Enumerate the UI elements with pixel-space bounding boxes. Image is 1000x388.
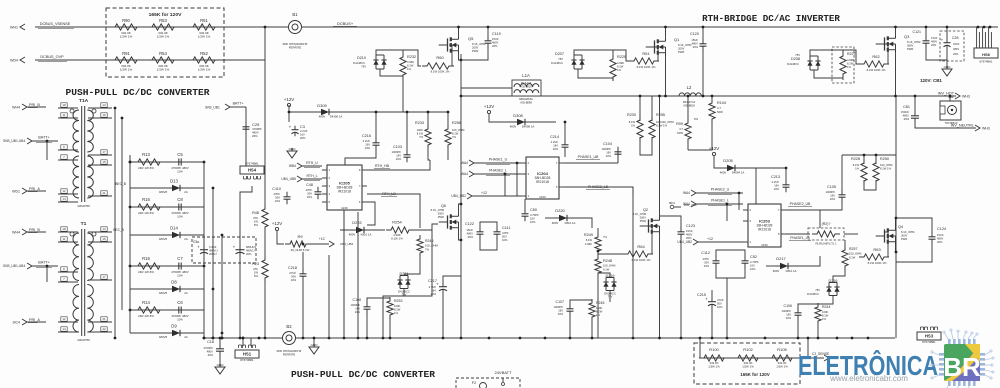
junction Q2 source bus xyxy=(658,337,661,340)
pin 22 transformer stub right xyxy=(88,327,112,332)
capacitor C6 xyxy=(171,300,188,321)
wire C122 col xyxy=(480,222,497,228)
svg-text:INV_NEUTRL: INV_NEUTRL xyxy=(951,124,974,128)
wire secondary rail xC xyxy=(129,155,131,333)
wire RTH_HB xyxy=(367,160,430,170)
junction C106 bus xyxy=(797,337,800,340)
junction ladder rail 222,333 xyxy=(221,332,224,335)
wire D205 row xyxy=(714,156,748,168)
wire R228 bot xyxy=(864,180,876,190)
svg-text:21: 21 xyxy=(102,317,106,321)
svg-text:+12: +12 xyxy=(707,237,713,241)
op-amp U IC205 xyxy=(322,165,367,210)
svg-text:8.1W: 8.1W xyxy=(407,63,414,67)
transistor Q5 xyxy=(439,35,486,55)
dual diode D210 xyxy=(353,55,386,69)
capacitor C215 xyxy=(697,293,724,309)
wire D221 return to bus xyxy=(383,296,404,338)
dual diode D208 xyxy=(787,53,820,70)
junction C28 bus xyxy=(946,26,949,29)
svg-text:PUSH-PULL DC/DC CONVERTER: PUSH-PULL DC/DC CONVERTER xyxy=(66,87,210,98)
svg-text:GND: GND xyxy=(539,195,545,199)
wire C28 top xyxy=(946,27,948,39)
junction R104 top xyxy=(711,95,714,98)
wire DCBUS_VSENSE row xyxy=(35,26,265,28)
svg-text:R99: R99 xyxy=(676,122,683,126)
svg-text:8.1W: 8.1W xyxy=(596,309,603,313)
node RTH_HB label xyxy=(374,164,390,168)
capacitor C5 xyxy=(171,152,188,173)
svg-text:D4306 1A: D4306 1A xyxy=(330,115,343,119)
wire D210 bottom xyxy=(380,69,403,79)
resistor R250 xyxy=(873,157,893,185)
svg-text:RTH_HB: RTH_HB xyxy=(375,164,390,168)
capacitor C119 xyxy=(485,32,501,48)
svg-text:C8: C8 xyxy=(177,197,183,202)
svg-text:47PF: 47PF xyxy=(502,231,509,235)
resistor R9 xyxy=(285,234,311,252)
wire C18 top xyxy=(219,338,221,345)
diode D220 xyxy=(552,208,576,225)
junction ladder left R14 xyxy=(129,309,132,312)
capacitor C111 xyxy=(494,226,511,242)
svg-text:R23: R23 xyxy=(252,262,259,266)
diode D14 xyxy=(159,226,188,242)
wire C25 column xyxy=(245,107,247,166)
junction C119 bus xyxy=(487,26,490,29)
node BF3 net stub xyxy=(669,201,697,209)
node PHASE2_L entry xyxy=(461,169,521,177)
wire D219 top xyxy=(598,273,610,278)
pin 13 transformer stub right xyxy=(88,103,112,108)
svg-text:C105: C105 xyxy=(827,185,836,189)
svg-text:480V: 480V xyxy=(692,41,699,45)
svg-text:SKB_UB1: SKB_UB1 xyxy=(205,106,220,110)
junction ladder rail 222,235 xyxy=(221,234,224,237)
svg-text:PRI_A: PRI_A xyxy=(29,318,40,322)
svg-text:SKB_UB1,UB4: SKB_UB1,UB4 xyxy=(3,139,25,143)
power +12V (C3 node) xyxy=(284,97,295,107)
resistor R233 xyxy=(415,121,431,149)
resistor R254 xyxy=(386,220,414,241)
svg-text:15UF: 15UF xyxy=(937,233,944,237)
svg-text:PRI_A: PRI_A xyxy=(29,187,40,191)
svg-text:PWR: PWR xyxy=(907,47,913,51)
svg-text:4.70PF: 4.70PF xyxy=(530,213,539,217)
junction phase2u xyxy=(738,192,741,195)
wire Q5 drain to bus xyxy=(458,27,460,35)
svg-text:R54: R54 xyxy=(159,51,167,56)
pin 17 transformer stub right xyxy=(88,150,112,155)
ground below C3 xyxy=(287,147,297,158)
svg-text:480V: 480V xyxy=(349,233,356,237)
svg-text:1%: 1% xyxy=(855,166,860,170)
svg-text:15UF: 15UF xyxy=(691,38,698,42)
svg-text:WH1: WH1 xyxy=(10,25,18,29)
wire C120 bottom xyxy=(702,50,704,96)
svg-text:1%: 1% xyxy=(822,317,827,321)
svg-text:47PF: 47PF xyxy=(703,257,710,261)
capacitor C81 xyxy=(901,105,921,123)
junction bus x520 xyxy=(519,337,522,340)
svg-text:K810 1A: K810 1A xyxy=(786,269,797,273)
svg-text:12: 12 xyxy=(62,317,66,321)
wire R228 top xyxy=(863,155,865,164)
svg-text:3IC4: 3IC4 xyxy=(13,320,20,324)
svg-text:D205: D205 xyxy=(723,158,733,163)
node BATT+ entry (C25 column) xyxy=(205,102,246,111)
svg-text:R245: R245 xyxy=(596,301,604,305)
svg-text:8.1W: 8.1W xyxy=(822,313,829,317)
resistor R227 (dashed) xyxy=(832,47,855,83)
wire feedback to bus xyxy=(699,338,701,358)
wire R233 top xyxy=(427,112,429,129)
svg-text:3.3UF: 3.3UF xyxy=(209,245,217,249)
svg-text:D210: D210 xyxy=(357,56,366,60)
wire R104 bot xyxy=(688,119,712,150)
resistor R256 xyxy=(445,121,465,149)
resistor R99 xyxy=(676,117,698,143)
wire B2 gnd link xyxy=(296,338,314,344)
svg-text:D309: D309 xyxy=(317,103,327,108)
diode D217 xyxy=(773,256,797,273)
wire D217 in xyxy=(766,265,776,267)
svg-text:IR21018: IR21018 xyxy=(758,228,771,232)
transistor Q2 xyxy=(633,208,660,236)
wire +12V down to C3 xyxy=(288,105,290,122)
svg-text:DCBUS_VSENSE: DCBUS_VSENSE xyxy=(40,22,71,26)
junction R228 feed xyxy=(863,154,866,157)
svg-text:480V: 480V xyxy=(467,231,474,235)
svg-text:480V/J: 480V/J xyxy=(209,248,218,252)
diode D221 (gate clamp) xyxy=(397,272,410,297)
wire secondary rail xA xyxy=(114,108,116,338)
svg-text:8.1K_OHM: 8.1K_OHM xyxy=(907,40,921,44)
inductor L2 xyxy=(679,85,701,107)
node DCBUS_OVP entry WD4 xyxy=(10,55,67,63)
node PHASE1_L entry xyxy=(683,199,743,207)
title RTH-BRIDGE DC/AC INVERTER xyxy=(702,13,840,24)
pin 21 transformer stub right xyxy=(88,191,112,196)
wire C121 bot xyxy=(926,47,947,60)
junction phase1u xyxy=(516,162,519,165)
svg-text:+1C: +1C xyxy=(319,237,326,241)
wire HS4 pins to C9 rail xyxy=(240,186,252,338)
capacitor C50 xyxy=(522,208,540,224)
junction Q1 drain bus xyxy=(664,26,667,29)
svg-text:D208: D208 xyxy=(791,57,800,61)
capacitor C104 xyxy=(602,142,622,159)
wire C108 R253 top xyxy=(367,298,390,303)
wire HS1 tap2 xyxy=(250,338,252,346)
svg-text:24VBATT: 24VBATT xyxy=(494,370,512,375)
svg-text:Q3: Q3 xyxy=(904,34,910,39)
svg-text:C107: C107 xyxy=(556,300,564,304)
wire R227 gate to R62 xyxy=(843,50,859,64)
junction Q6 source rail xyxy=(460,239,463,242)
wire row D8 xyxy=(130,288,204,290)
svg-text:8.1W 100K 1%: 8.1W 100K 1% xyxy=(867,68,886,72)
wire R247 to Q4 gate xyxy=(844,233,858,235)
ferrite bead B2 xyxy=(277,324,302,356)
svg-text:K810 1A: K810 1A xyxy=(361,233,372,237)
junction bus x461 xyxy=(460,337,463,340)
wire C217 col xyxy=(443,276,461,283)
resistor R16 xyxy=(133,197,165,215)
svg-text:1/2W 1%: 1/2W 1% xyxy=(157,34,170,38)
resistor R64 xyxy=(623,244,653,262)
wire R250 top xyxy=(875,155,877,164)
svg-text:PRI_B: PRI_B xyxy=(29,228,40,232)
svg-text:+12: +12 xyxy=(481,191,487,195)
svg-text:16V: 16V xyxy=(750,263,755,267)
wire D221 links xyxy=(404,256,420,274)
junction ladder rail 222,338 xyxy=(221,337,224,340)
junction ladder left R13 xyxy=(129,161,132,164)
svg-text:BATT+: BATT+ xyxy=(38,261,50,265)
junction bus x329 xyxy=(328,337,331,340)
wire D220 row xyxy=(545,217,555,219)
svg-text:8.1W: 8.1W xyxy=(853,163,860,167)
svg-text:8.1W 1%: 8.1W 1% xyxy=(391,236,403,240)
junction HS6 tap2 xyxy=(983,26,986,29)
svg-text:C216: C216 xyxy=(362,134,371,138)
svg-text:R254: R254 xyxy=(392,220,402,225)
svg-text:16V: 16V xyxy=(786,312,791,316)
svg-text:DCBUS_OVP: DCBUS_OVP xyxy=(40,55,64,59)
dashed box C9 bank xyxy=(192,237,256,263)
svg-text:WA4: WA4 xyxy=(461,161,468,165)
transistor Q3 xyxy=(876,34,921,54)
svg-text:R230: R230 xyxy=(627,113,636,117)
svg-text:WD1: WD1 xyxy=(12,189,20,193)
svg-text:2.2UF: 2.2UF xyxy=(551,140,559,144)
svg-text:Q4: Q4 xyxy=(898,225,903,229)
capacitor C121 xyxy=(913,30,938,48)
svg-text:UB4_UB2: UB4_UB2 xyxy=(677,240,692,244)
svg-text:100K: 100K xyxy=(822,310,829,314)
svg-text:PHASE2_L: PHASE2_L xyxy=(489,169,507,173)
svg-text:WH3: WH3 xyxy=(982,126,990,130)
junction BATT+ T1 xyxy=(46,265,49,268)
svg-text:C110: C110 xyxy=(272,187,281,191)
junction BATT+ T1A xyxy=(46,140,49,143)
wire phase1l vert xyxy=(726,204,728,221)
junction bus x489 xyxy=(488,337,491,340)
wire vertical rail x265 xyxy=(264,27,266,338)
svg-text:C48: C48 xyxy=(306,183,313,187)
capacitor C112 xyxy=(701,251,719,268)
resistor R15 xyxy=(133,256,165,274)
svg-text:A35-B818: A35-B818 xyxy=(683,103,695,107)
junction C218 bus xyxy=(302,337,305,340)
svg-text:Q5: Q5 xyxy=(468,36,474,41)
svg-text:L1A: L1A xyxy=(522,73,530,78)
pin 21 transformer stub right xyxy=(88,317,112,322)
wire C106/R244 top xyxy=(798,304,818,309)
node BEC_A label xyxy=(113,228,125,232)
svg-text:6%: 6% xyxy=(694,117,699,121)
svg-text:C81: C81 xyxy=(903,105,910,109)
dual diode D207 xyxy=(551,52,584,69)
svg-text:100_OHM: 100_OHM xyxy=(603,264,616,268)
svg-text:www.eletronicabr.com: www.eletronicabr.com xyxy=(829,374,908,383)
wire rail x344 xyxy=(343,210,345,338)
wire C215 bot xyxy=(711,308,713,338)
capacitor C48 xyxy=(306,183,322,199)
op-amp U IC204 xyxy=(521,157,564,199)
svg-text:C108: C108 xyxy=(353,298,361,302)
svg-text:HS3: HS3 xyxy=(925,334,934,339)
svg-text:B2: B2 xyxy=(286,324,292,329)
svg-text:480V: 480V xyxy=(552,221,559,225)
svg-text:R244: R244 xyxy=(822,305,830,309)
junction bus x204 xyxy=(203,337,206,340)
svg-text:(R2)?: (R2)? xyxy=(822,222,831,226)
svg-text:50W: 50W xyxy=(717,110,723,114)
node PHASE2_UB label xyxy=(788,202,812,206)
svg-text:26%: 26% xyxy=(931,43,937,47)
svg-text:R63: R63 xyxy=(873,247,881,252)
svg-text:8.1W 100K 1%: 8.1W 100K 1% xyxy=(632,258,651,262)
svg-text:4.7UF: 4.7UF xyxy=(429,285,437,289)
svg-text:480V8: 480V8 xyxy=(159,291,168,295)
wire R62 to Q3 gate xyxy=(884,44,888,64)
wire PHASE1_UB xyxy=(564,162,618,164)
junction ladder rail 213,188 xyxy=(212,187,215,190)
svg-text:1%: 1% xyxy=(631,123,636,127)
svg-text:430x8788: 430x8788 xyxy=(77,204,90,208)
svg-text:480V8: 480V8 xyxy=(159,335,168,339)
node +12 entry IC203 xyxy=(677,237,743,245)
capacitor C123 xyxy=(678,224,696,240)
svg-text:12: 12 xyxy=(62,189,66,193)
svg-text:C3: C3 xyxy=(300,125,305,129)
svg-text:PWR: PWR xyxy=(472,49,478,53)
wire mid rail y96 (L1A to output) xyxy=(461,95,955,97)
svg-text:BEC_A: BEC_A xyxy=(113,228,125,232)
node PRI_B entry (T1) xyxy=(12,228,46,235)
wire C103 col xyxy=(406,112,408,151)
wire R9 row xyxy=(277,231,284,244)
junction R99 top xyxy=(687,95,690,98)
svg-text:R104: R104 xyxy=(717,101,726,105)
junction ladder left R16 xyxy=(129,206,132,209)
pin 16 transformer stub right xyxy=(88,237,112,242)
wire R61 to Q1 gate xyxy=(654,47,658,61)
svg-text:100/100_OHM: 100/100_OHM xyxy=(656,120,674,124)
wire PHASE2_LB xyxy=(564,187,633,196)
junction rail y96 xyxy=(460,95,463,98)
wire D207 bottom xyxy=(578,69,613,81)
capacitor C18 xyxy=(204,340,224,357)
junction bus x243 xyxy=(242,337,245,340)
wire R249 top xyxy=(597,228,599,237)
svg-text:D4148CC: D4148CC xyxy=(787,62,799,66)
heatsink HS1 xyxy=(235,345,259,362)
wire R254 to Q6 gate xyxy=(409,224,438,230)
ground below C28 xyxy=(942,65,952,76)
svg-text:480V: 480V xyxy=(686,232,693,236)
node INV_HOT exit xyxy=(896,92,970,99)
resistor R60 xyxy=(422,55,454,74)
svg-text:380V: 380V xyxy=(907,43,914,47)
wire R104 top xyxy=(711,96,713,103)
ferrite bead B1 xyxy=(283,12,308,49)
svg-text:50V: 50V xyxy=(291,274,296,278)
svg-text:WH4: WH4 xyxy=(12,230,20,234)
svg-text:D217: D217 xyxy=(776,256,786,261)
svg-text:50V: 50V xyxy=(307,191,312,195)
svg-text:1000PF: 1000PF xyxy=(554,305,564,309)
svg-text:PWR: PWR xyxy=(901,237,907,241)
junction Q4 source rail xyxy=(895,251,898,254)
wire C50 top xyxy=(524,199,526,210)
wire D208/R227 top xyxy=(810,50,843,56)
svg-text:BATT+: BATT+ xyxy=(233,102,244,106)
svg-text:Q1: Q1 xyxy=(674,37,680,42)
svg-text:18: 18 xyxy=(62,227,66,231)
svg-text:WA4: WA4 xyxy=(461,172,468,176)
svg-text:26%: 26% xyxy=(693,45,699,49)
wire D309 row xyxy=(289,111,448,113)
wire R9 out xyxy=(306,243,329,245)
pin 11 transformer stub xyxy=(58,237,78,242)
svg-text:R232: R232 xyxy=(407,55,416,59)
svg-text:16: 16 xyxy=(102,113,106,117)
svg-text:R15: R15 xyxy=(142,256,150,261)
junction J11 tap xyxy=(949,95,952,98)
junction bus x265 xyxy=(264,337,267,340)
svg-text:7%: 7% xyxy=(452,135,457,139)
node DCBUS+ label xyxy=(333,21,357,26)
junction bus x265 xyxy=(264,26,267,29)
pin 14 transformer stub xyxy=(58,327,78,332)
junction Q4 drain rail xyxy=(895,217,898,220)
svg-text:+12V: +12V xyxy=(284,97,295,102)
resistor R230 xyxy=(627,113,643,142)
node PHASE1_UB label xyxy=(576,155,600,159)
wire C124 bot xyxy=(896,243,932,262)
capacitor C9b xyxy=(233,245,257,257)
svg-text:4700PF: 4700PF xyxy=(204,346,214,350)
wire feedback row xyxy=(700,357,806,359)
wire DCBUS_OVP row xyxy=(35,59,265,61)
svg-text:8.1W 1%: 8.1W 1% xyxy=(656,123,668,127)
resistor R249 xyxy=(584,233,608,255)
svg-text:C215: C215 xyxy=(697,293,706,297)
svg-text:26%: 26% xyxy=(468,235,474,239)
wire PHASE2_UB xyxy=(786,210,820,228)
svg-text:16V: 16V xyxy=(396,153,401,157)
resistor R232 xyxy=(400,53,416,79)
resistor R100 xyxy=(699,347,729,368)
svg-text:GND: GND xyxy=(341,206,347,210)
svg-text:8.1W: 8.1W xyxy=(603,268,610,272)
svg-text:WA4: WA4 xyxy=(683,191,690,195)
wire C120 top xyxy=(702,27,704,40)
wire PHASE2_LB drop to bus xyxy=(632,187,634,338)
svg-text:8.1W: 8.1W xyxy=(849,256,856,260)
svg-text:PWR: PWR xyxy=(640,219,646,223)
wire row R14 xyxy=(130,309,204,311)
pin 12 transformer stub xyxy=(58,317,78,322)
svg-text:8.1W: 8.1W xyxy=(617,64,624,68)
svg-text:6802H/8.8A: 6802H/8.8A xyxy=(519,97,533,101)
wire row R15 xyxy=(130,265,204,267)
wire phase vert1 xyxy=(516,163,518,196)
svg-text:FERRITE: FERRITE xyxy=(283,352,296,356)
